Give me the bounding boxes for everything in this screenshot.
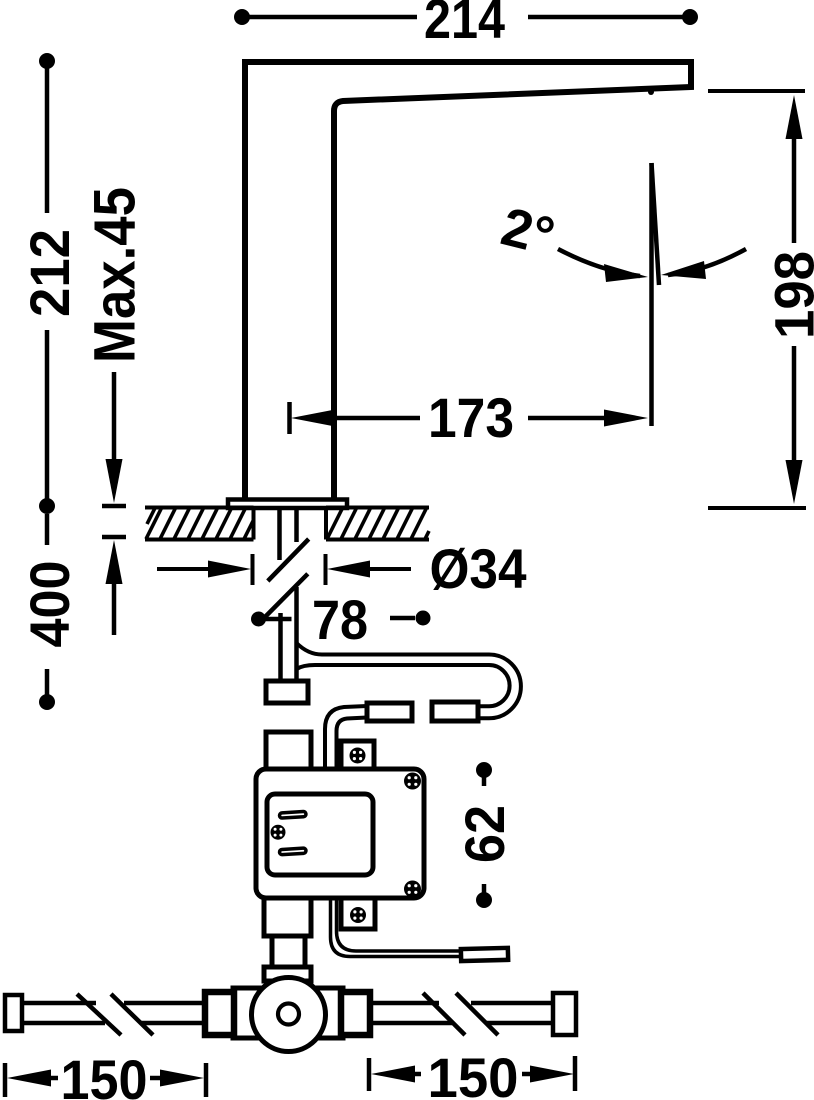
dim 173 left tick [287, 402, 292, 434]
angle arc right segment [668, 249, 746, 275]
dim 198 lower line [792, 346, 797, 460]
valve inlet stub [266, 732, 311, 769]
dim 214 line left segment [242, 15, 417, 20]
supply hose connector [432, 702, 478, 721]
valve top tab screw [350, 748, 366, 764]
outlet pipe [272, 936, 305, 967]
dim 173 line right [528, 416, 612, 421]
T-fitting bore [278, 1004, 299, 1025]
svg-text:Ø34: Ø34 [430, 537, 527, 600]
dim 150 right: left tick [367, 1058, 372, 1091]
supply pipe nut [266, 681, 308, 703]
dim 212 top dot [39, 53, 55, 69]
dim 62 top dot [476, 762, 492, 778]
supply pipe upper right wall [294, 508, 299, 542]
dim 150 left: left tick [3, 1063, 8, 1097]
supply hose upper wall [297, 643, 521, 718]
right pipe top wall segment 2 [471, 1001, 553, 1006]
right pipe bottom wall segment 1 [370, 1021, 452, 1026]
right pipe end cap [553, 993, 576, 1035]
left pipe bottom wall segment 2 [140, 1021, 205, 1026]
dim 173 right arrowhead [604, 410, 648, 427]
right pipe break slash 1 [423, 993, 465, 1035]
angle arc left arrowhead [604, 264, 648, 282]
valve outlet stub [264, 898, 311, 936]
dim 173 line left [333, 416, 420, 421]
dim 400 upper line [45, 514, 50, 545]
valve hose inner wall [337, 718, 368, 770]
left pipe top wall segment 1 [18, 1001, 96, 1006]
svg-text:400: 400 [18, 561, 81, 648]
dim 214 right dot [682, 9, 698, 25]
dim Max.45 lower arrowhead [106, 540, 123, 584]
dim 150 right: right arrowhead [530, 1066, 574, 1083]
box face plate [267, 794, 373, 875]
dim 198 lower arrowhead [786, 460, 803, 504]
dim 62 top line [482, 770, 487, 786]
svg-text:62: 62 [453, 805, 516, 863]
T-fitting left end piece [205, 992, 234, 1035]
sensor cable inner wall [337, 898, 460, 951]
dim 150 left: right stub [150, 1076, 160, 1081]
dim 198 top extension line [708, 89, 805, 93]
box screw top right [404, 773, 421, 790]
countertop right hatch [327, 508, 429, 539]
dim 150 left: left stub [51, 1076, 58, 1081]
valve bottom mounting tab [341, 898, 375, 929]
supply hose lower wall [297, 665, 510, 706]
dim O34 left tick [251, 554, 255, 585]
dim 400 bottom dot [39, 694, 55, 710]
svg-text:150: 150 [61, 1048, 148, 1100]
sensor cable connector [461, 948, 508, 961]
water stream vertical reference line [649, 163, 654, 426]
svg-text:150: 150 [428, 1046, 519, 1100]
dim O34 right arrowhead [327, 561, 370, 578]
T-fitting body [252, 978, 326, 1052]
face plate slot 2 [279, 848, 306, 855]
outlet flange [264, 967, 311, 981]
countertop left hatch [146, 508, 254, 539]
countertop left slab [145, 508, 254, 540]
countertop right slab [326, 508, 429, 540]
angle arc right arrowhead [661, 261, 706, 279]
dim Max.45 upper tick [102, 504, 126, 509]
supply pipe break slash 1 [268, 539, 309, 581]
dim Max.45 upper arrowhead [106, 459, 123, 503]
dim 212 line upper [45, 61, 50, 213]
solenoid valve box [256, 769, 424, 898]
svg-text:214: 214 [424, 0, 505, 50]
face plate slot 1 [279, 811, 306, 818]
supply pipe lower right wall [294, 587, 299, 681]
sensor cable outer wall [331, 898, 460, 957]
dim 150 left: right arrowhead [160, 1070, 204, 1087]
valve bottom tab screw [350, 907, 366, 923]
right pipe break slash 2 [456, 993, 498, 1035]
svg-text:Max.45: Max.45 [83, 187, 148, 363]
dim 173 left arrowhead [291, 410, 335, 427]
face plate screw [271, 825, 286, 840]
dim 78 left dot [251, 612, 266, 627]
base plate [228, 500, 347, 509]
valve hose connector [367, 703, 412, 721]
dim 150 right: right stub [522, 1072, 530, 1077]
dim 150 right: right tick [573, 1056, 578, 1091]
faucet spout outline [245, 62, 691, 500]
dim Max.45 lower tick [102, 535, 126, 540]
dim 214 line right segment [528, 15, 690, 20]
dim 198 bottom extension line [708, 506, 806, 510]
dim 214 left dot [234, 9, 250, 25]
left pipe end cap [5, 995, 22, 1031]
T-fitting left collar [233, 988, 262, 1038]
angle arc left segment [558, 249, 640, 276]
dim Max.45 lower arrow line [112, 584, 117, 635]
left pipe break slash 1 [77, 994, 121, 1035]
left pipe break slash 2 [111, 994, 153, 1035]
svg-text:198: 198 [763, 251, 814, 339]
dim 150 left: right tick [204, 1063, 209, 1097]
dim O34 left arrowhead [208, 561, 251, 578]
dim O34 left line [157, 567, 215, 571]
right pipe top wall segment 1 [370, 1001, 439, 1006]
svg-text:173: 173 [428, 386, 514, 449]
dim 62 bottom dot [476, 892, 492, 908]
spout outlet tick [648, 89, 654, 95]
dim 212 / 400 shared dot [39, 498, 55, 514]
dim O34 right line [368, 567, 411, 571]
dim Max.45 upper arrow line [112, 372, 117, 462]
left pipe top wall segment 2 [124, 1001, 205, 1006]
dim 62 bottom line [482, 884, 487, 900]
dim 150 right: left arrowhead [371, 1066, 415, 1083]
dim 78 right dot [416, 611, 431, 626]
dim 212 line lower [45, 330, 50, 506]
dim O34 right tick [324, 554, 328, 585]
supply pipe lower left wall [278, 613, 283, 681]
right pipe bottom wall segment 2 [487, 1021, 553, 1026]
dim 150 left: left arrowhead [7, 1070, 51, 1087]
svg-text:212: 212 [18, 229, 81, 317]
valve top mounting tab [341, 741, 374, 769]
dim 400 lower line [45, 669, 50, 695]
valve hose outer wall [325, 706, 367, 769]
water stream tilted line [652, 163, 660, 285]
supply pipe upper left wall [277, 508, 282, 560]
dim 198 upper arrowhead [786, 95, 803, 139]
svg-text:78: 78 [312, 588, 368, 651]
left pipe bottom wall segment 1 [18, 1021, 105, 1026]
dim 150 right: left stub [415, 1072, 421, 1077]
dim 78 left line [259, 617, 292, 622]
T-fitting right collar [314, 988, 343, 1038]
T-fitting right end piece [341, 992, 370, 1035]
dim 198 upper line [792, 139, 797, 243]
box screw bottom right [404, 881, 421, 898]
supply pipe break slash 2 [265, 574, 308, 617]
dim 78 right line [390, 616, 415, 621]
